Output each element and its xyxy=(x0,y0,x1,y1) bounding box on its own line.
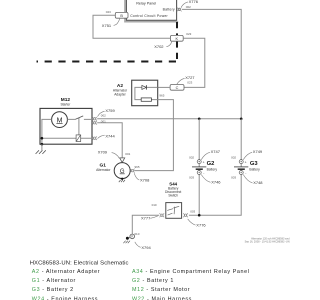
svg-text:003: 003 xyxy=(231,175,236,179)
leader X748 xyxy=(243,175,252,183)
connector X744 xyxy=(92,136,97,140)
svg-text:-: - xyxy=(245,171,246,175)
wire 965 from A2 down to G1 xyxy=(134,100,173,171)
starter motor M12 box xyxy=(40,108,92,144)
svg-text:002: 002 xyxy=(186,5,191,9)
junction dot bus/G2 xyxy=(198,118,201,121)
relay panel A34 shadow xyxy=(125,0,178,22)
connector X746 xyxy=(197,171,201,175)
svg-text:965: 965 xyxy=(134,165,139,169)
connector X708 xyxy=(130,169,135,173)
ground (X794) xyxy=(123,241,130,244)
svg-text:003: 003 xyxy=(190,210,195,214)
wire G2 column xyxy=(198,119,200,215)
svg-text:003: 003 xyxy=(189,175,194,179)
svg-text:X747: X747 xyxy=(211,149,221,154)
svg-text:002: 002 xyxy=(189,156,194,160)
svg-text:Battery: Battery xyxy=(207,168,218,172)
svg-text:X751: X751 xyxy=(102,23,112,28)
battery disconnect switch S44 box xyxy=(166,203,182,219)
leader X708 xyxy=(134,173,139,180)
connector B (X751) xyxy=(115,12,128,18)
svg-text:G2 - Battery 1: G2 - Battery 1 xyxy=(132,278,174,284)
alternator adapter A2 box xyxy=(132,80,158,106)
wire 002 from X776 to bus xyxy=(182,9,241,118)
leader X777 xyxy=(150,216,158,218)
svg-text:+: + xyxy=(245,160,247,164)
svg-text:010: 010 xyxy=(134,232,139,236)
boundary dashed line vertical xyxy=(176,22,178,63)
svg-text:X759: X759 xyxy=(105,108,115,113)
svg-text:Alternator: Alternator xyxy=(96,168,111,172)
svg-text:G3: G3 xyxy=(250,161,259,167)
S44 internal switch xyxy=(167,206,179,215)
leader X746 xyxy=(201,175,210,183)
starter switch blade xyxy=(75,116,83,120)
leader X709 xyxy=(112,153,120,159)
svg-text:002: 002 xyxy=(231,156,236,160)
junction dot 003/G2 xyxy=(198,214,201,217)
junction dot bus/G3 xyxy=(240,118,243,121)
svg-text:023: 023 xyxy=(187,80,192,84)
svg-text:023: 023 xyxy=(106,10,111,14)
connector X794 ring xyxy=(130,234,135,239)
connector X759 pins xyxy=(92,117,97,121)
leader X702 xyxy=(166,42,171,47)
ground (M12) xyxy=(41,144,43,150)
svg-text:001: 001 xyxy=(125,152,130,156)
connector K (X702) xyxy=(170,35,183,41)
leader X759 xyxy=(98,111,105,116)
wire 023 from connector B xyxy=(93,15,170,38)
connector X748 xyxy=(239,171,243,175)
solenoid coil xyxy=(76,135,81,142)
svg-text:HXC86583-UN: Electrical Schema: HXC86583-UN: Electrical Schematic xyxy=(30,260,129,266)
svg-text:X709: X709 xyxy=(98,150,108,155)
diode D1 xyxy=(142,85,146,89)
junction dots M12 xyxy=(41,137,44,140)
bus wire 002 xyxy=(97,118,241,120)
svg-text:Battery: Battery xyxy=(163,8,175,12)
svg-text:Relay Panel: Relay Panel xyxy=(136,2,156,6)
svg-text:010: 010 xyxy=(152,203,157,207)
svg-text:X776: X776 xyxy=(189,0,199,4)
connector X749 xyxy=(239,160,243,164)
junction dot under G1 xyxy=(121,178,123,180)
resistor R1 xyxy=(141,98,151,101)
connector X747 xyxy=(197,160,201,164)
svg-text:Starter: Starter xyxy=(60,102,71,106)
connector C (X727) xyxy=(170,85,184,91)
wire 010 to X794 xyxy=(132,215,159,234)
svg-text:Battery: Battery xyxy=(249,168,260,172)
svg-text:G2: G2 xyxy=(207,161,215,167)
leader X749 xyxy=(243,152,252,159)
wire G3 column xyxy=(189,119,241,215)
battery G2 plates xyxy=(192,166,206,168)
svg-text:G3 - Battery 2: G3 - Battery 2 xyxy=(32,287,74,293)
svg-text:A2 - Alternator Adapter: A2 - Alternator Adapter xyxy=(32,269,100,275)
connector X776 (relay panel battery, chevrons) xyxy=(177,7,182,11)
connector X776 (S44 right) xyxy=(183,213,188,217)
leader X751 xyxy=(114,19,120,26)
alternator G1 circle xyxy=(114,163,130,179)
svg-text:X744: X744 xyxy=(105,133,115,138)
connector X709 triangle xyxy=(120,158,125,163)
svg-text:965: 965 xyxy=(159,94,164,98)
leader X747 xyxy=(201,152,210,159)
leader X776 top xyxy=(181,2,188,7)
svg-text:Sep 16, 2008 - 10:41:33 HXC865: Sep 16, 2008 - 10:41:33 HXC86583 -UN xyxy=(245,240,290,243)
A2 internal wires xyxy=(135,87,158,99)
svg-text:X708: X708 xyxy=(140,177,150,182)
svg-text:X794: X794 xyxy=(141,245,151,250)
svg-text:023: 023 xyxy=(186,32,191,36)
svg-text:G1 - Alternator: G1 - Alternator xyxy=(32,278,76,284)
leader X794 xyxy=(135,242,141,247)
wire 001 to G1 xyxy=(97,123,122,158)
svg-text:Switch: Switch xyxy=(168,194,178,198)
svg-text:002: 002 xyxy=(101,113,106,117)
svg-text:X776: X776 xyxy=(196,222,206,227)
svg-text:-: - xyxy=(203,171,204,175)
svg-text:K: K xyxy=(176,37,179,41)
leader X727 xyxy=(177,78,185,84)
ground (G1) xyxy=(119,180,125,182)
leader X744 xyxy=(98,135,105,138)
svg-text:C: C xyxy=(176,86,179,90)
svg-text:Adapter: Adapter xyxy=(114,92,126,96)
wire 023 from K to C xyxy=(183,38,205,87)
svg-text:X702: X702 xyxy=(154,44,164,49)
svg-text:M12 - Starter Motor: M12 - Starter Motor xyxy=(132,287,190,293)
ground dot X794 xyxy=(126,237,129,240)
leader X776 bottom xyxy=(188,219,196,225)
connector X777 (S44 left) xyxy=(160,213,165,217)
svg-text:A34 - Engine Compartment Relay: A34 - Engine Compartment Relay Panel xyxy=(132,269,250,275)
motor symbol M xyxy=(52,112,68,128)
relay panel A34 box xyxy=(126,0,176,20)
M12 internal wires xyxy=(42,118,92,144)
svg-text:X777: X777 xyxy=(141,216,151,221)
svg-text:X746: X746 xyxy=(211,180,221,185)
svg-text:Control Circuit Power: Control Circuit Power xyxy=(130,14,168,18)
svg-text:+: + xyxy=(203,160,205,164)
svg-text:X749: X749 xyxy=(253,149,263,154)
wire C to A2 xyxy=(158,86,170,88)
battery G3 plates xyxy=(234,166,248,168)
svg-text:X748: X748 xyxy=(253,180,263,185)
